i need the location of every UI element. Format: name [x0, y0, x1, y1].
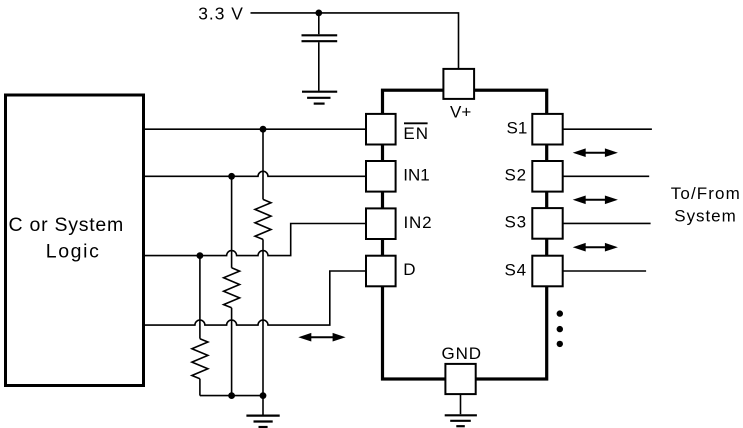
svg-text:EN: EN	[403, 124, 429, 143]
bidirectional arrow S1/S2	[573, 148, 618, 157]
svg-text:S4: S4	[505, 260, 527, 279]
wire bus to ground	[262, 396, 264, 415]
bidirectional arrow S2/S3	[573, 196, 618, 205]
svg-text:3.3 V: 3.3 V	[198, 4, 244, 24]
resistor R1	[255, 129, 271, 395]
junction dot bus/R2	[228, 392, 235, 399]
ground (pull-down resistors)	[246, 416, 279, 427]
junction dot bus/R1	[260, 392, 267, 399]
junction dot row2 / R2	[228, 173, 235, 180]
ground (GND pin)	[445, 415, 477, 426]
wire S1 to system	[563, 128, 652, 130]
pin IN1	[366, 161, 396, 192]
svg-text:V+: V+	[450, 103, 471, 122]
wire GND pin to ground	[460, 394, 462, 414]
wire row3 logic to IN2 (hops over R2, R1 leads)	[145, 224, 366, 256]
svg-text:System: System	[674, 206, 736, 225]
wire capacitor top lead	[318, 13, 320, 34]
resistor R3	[192, 256, 208, 396]
pin V+	[443, 69, 474, 99]
pin IN2	[366, 208, 396, 239]
wire 3.3V rail to V+	[251, 13, 459, 69]
svg-text:IN1: IN1	[403, 166, 429, 185]
junction dot row3 / R3	[197, 252, 204, 259]
svg-text:D: D	[403, 260, 415, 279]
ellipsis dots (more channels)	[557, 310, 563, 316]
pin D	[366, 256, 396, 287]
wire ground bus	[200, 395, 263, 397]
pin EN	[366, 114, 396, 145]
svg-text:GND: GND	[442, 344, 482, 363]
pin S2	[532, 161, 562, 192]
svg-text:C or System: C or System	[9, 214, 125, 236]
pin S3	[532, 208, 562, 239]
svg-text:IN2: IN2	[404, 213, 433, 232]
bidirectional arrow S3/S4	[573, 243, 618, 252]
bidirectional arrow (D row)	[298, 333, 345, 342]
junction dot on 3.3V rail	[315, 10, 322, 17]
pin S4	[532, 256, 562, 287]
svg-text:To/From: To/From	[671, 184, 741, 203]
pin S1	[532, 114, 562, 145]
wire row2 logic to IN1 (hop over R1 lead)	[145, 171, 366, 176]
resistor R2	[224, 176, 240, 395]
wire row1 logic to EN	[145, 128, 366, 130]
ground (capacitor)	[302, 92, 337, 104]
svg-text:S1: S1	[507, 119, 528, 138]
IC body U1	[383, 90, 547, 379]
wire S4 to system	[563, 270, 646, 272]
wire S2 to system	[563, 175, 649, 177]
pin GND	[445, 364, 475, 394]
logic box: C or System Logic	[6, 95, 144, 386]
capacitor C1 (bypass)	[302, 35, 338, 41]
wire row4 logic to D (hops over R3, R2, R1 leads)	[145, 271, 366, 325]
wire capacitor bottom lead	[318, 42, 320, 91]
wire S3 to system	[563, 222, 651, 224]
svg-text:Logic: Logic	[46, 240, 101, 262]
junction dot row1 / R1	[260, 126, 267, 133]
svg-text:S2: S2	[505, 166, 527, 185]
svg-text:S3: S3	[505, 213, 527, 232]
